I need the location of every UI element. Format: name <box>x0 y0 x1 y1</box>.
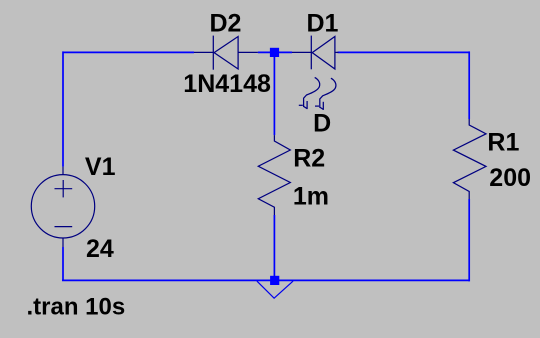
wire: middle vertical upper <box>273 52 275 135</box>
node junction top (between D2 and D1) <box>270 48 279 57</box>
diode D1 (LED) <box>292 36 339 70</box>
wire: right vertical upper <box>468 51 470 119</box>
svg-text:.tran 10s: .tran 10s <box>27 294 126 321</box>
svg-text:1N4148: 1N4148 <box>183 70 271 98</box>
node junction bottom (at ground) <box>270 276 279 285</box>
svg-text:200: 200 <box>489 164 531 192</box>
LED light arrow 1 <box>299 77 320 109</box>
resistor R2 <box>258 135 290 215</box>
svg-text:1m: 1m <box>293 182 329 210</box>
diode D2 <box>194 36 258 70</box>
wire: left vertical upper <box>62 51 64 166</box>
svg-text:D: D <box>313 110 331 138</box>
wire: top horizontal between D2 and D1 <box>258 51 292 53</box>
svg-text:R1: R1 <box>487 128 519 156</box>
wire: middle vertical lower <box>273 215 275 280</box>
svg-text:R2: R2 <box>293 144 325 172</box>
svg-text:D2: D2 <box>210 10 242 38</box>
wire: top horizontal right segment <box>338 51 470 53</box>
wire: right vertical lower <box>468 199 470 281</box>
svg-text:V1: V1 <box>85 153 116 181</box>
svg-text:24: 24 <box>86 235 114 263</box>
wire: left vertical lower <box>62 247 64 280</box>
resistor R1 <box>453 119 486 199</box>
voltage source V1 <box>31 167 94 247</box>
wire: top horizontal left segment <box>63 51 194 53</box>
svg-text:D1: D1 <box>307 10 339 38</box>
ground <box>257 281 293 298</box>
wire: bottom horizontal <box>62 279 469 281</box>
LED light arrow 2 <box>315 78 336 110</box>
